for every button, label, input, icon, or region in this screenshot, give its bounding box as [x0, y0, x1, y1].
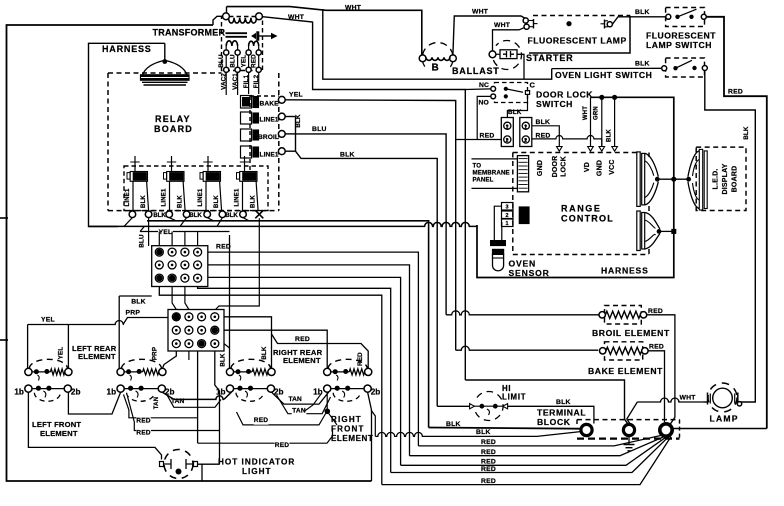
hi limit switch	[476, 391, 504, 420]
wire grid1 row2 to bundle	[208, 265, 410, 456]
transformer terminal left	[223, 13, 230, 20]
ground symbol under terminal 2	[628, 436, 630, 445]
wire grid1 cols to grid2	[172, 287, 176, 310]
svg-text:BROIL ELEMENT: BROIL ELEMENT	[592, 328, 670, 338]
svg-text:L.E.D.: L.E.D.	[713, 168, 720, 189]
svg-text:PRP: PRP	[151, 347, 158, 360]
wire c2 to bake join	[637, 401, 638, 403]
svg-text:RED: RED	[357, 352, 364, 366]
relay K2	[171, 156, 173, 172]
svg-text:WHT: WHT	[345, 5, 362, 12]
starter	[493, 41, 521, 70]
wire hot indicator to bottom line	[201, 464, 203, 481]
wire U1 2b to U2 1b	[68, 392, 120, 414]
harness enclosure box	[477, 97, 674, 277]
wire grid1 row1 to bundle	[208, 252, 419, 446]
wire BLK bottom run	[375, 432, 537, 436]
svg-text:TAN: TAN	[154, 397, 160, 410]
svg-text:YEL: YEL	[159, 229, 173, 236]
wire grid1 col1 down BLK to bundle	[159, 287, 381, 485]
svg-text:PRP: PRP	[126, 309, 141, 316]
svg-text:BLK: BLK	[556, 399, 571, 406]
wire U1 right feed	[67, 325, 69, 369]
surface element right front switch row	[324, 385, 331, 392]
membrane connector	[517, 156, 528, 192]
svg-text:1b: 1b	[107, 388, 117, 397]
svg-text:RED: RED	[536, 132, 551, 139]
oven sensor body	[491, 241, 506, 246]
wire YEL bus	[140, 231, 230, 233]
wire harness lead down to connector	[164, 43, 166, 59]
svg-text:RED: RED	[481, 449, 496, 456]
wire WHT outer left loop	[7, 25, 372, 481]
svg-text:BLK: BLK	[261, 346, 268, 360]
wire WHT transformer primary left lead	[213, 16, 226, 25]
junction dots on enclosure top	[599, 95, 604, 100]
wire grid1 col4 down to bundle	[198, 287, 391, 473]
fluorescent lamp switch	[666, 8, 705, 27]
svg-text:WHT: WHT	[583, 106, 589, 120]
harness box outline	[89, 43, 165, 226]
svg-text:BLU: BLU	[139, 234, 146, 248]
surface element left front switch row	[25, 385, 32, 392]
wire oven light switch feed	[552, 67, 664, 69]
surface element left front top row	[25, 368, 32, 375]
svg-text:LEFT FRONT: LEFT FRONT	[32, 420, 81, 429]
wire BLK main feed to terminal 1	[429, 428, 580, 429]
svg-text:2: 2	[524, 138, 527, 144]
svg-text:RED: RED	[648, 308, 663, 315]
relay board dashed box	[108, 72, 222, 74]
transformer primary winding	[229, 18, 257, 23]
wire WHT lamp feed	[637, 398, 707, 402]
svg-text:TAN: TAN	[289, 396, 302, 403]
junction X terminal	[255, 210, 263, 218]
svg-text:RED: RED	[136, 418, 151, 425]
svg-text:LIGHT: LIGHT	[242, 467, 272, 476]
svg-text:BLU: BLU	[218, 54, 225, 68]
wire RED U3 to U4 low run	[237, 412, 327, 425]
wire right front element drops	[326, 392, 328, 411]
svg-text:LAMP SWITCH: LAMP SWITCH	[646, 40, 712, 50]
svg-text:DOOR LOCK: DOOR LOCK	[536, 90, 593, 100]
svg-text:BLK: BLK	[295, 114, 302, 128]
svg-text:LINE1: LINE1	[260, 117, 279, 124]
svg-text:GND: GND	[596, 160, 603, 176]
transformer core bars	[226, 32, 248, 34]
svg-text:BLK: BLK	[340, 152, 355, 159]
svg-text:RED: RED	[649, 344, 664, 351]
wire RED to U4 right	[272, 334, 369, 369]
relay bank dashed box	[124, 166, 268, 211]
svg-text:DISPLAY: DISPLAY	[722, 163, 729, 194]
connector grid J2	[168, 310, 224, 352]
svg-text:NC: NC	[479, 82, 489, 89]
wire fluorescent to lamp switch BLK	[612, 17, 665, 24]
connector block P1	[501, 118, 513, 147]
svg-text:CONTROL: CONTROL	[561, 214, 614, 224]
svg-text:HARNESS: HARNESS	[601, 266, 649, 276]
svg-text:BAKE ELEMENT: BAKE ELEMENT	[588, 366, 663, 376]
wire terminal 2 diagonals	[465, 380, 628, 425]
grid1 feed verticals	[158, 232, 160, 247]
wire U3 to U4 lower parallel TAN	[277, 395, 331, 414]
wire BLU broil output	[285, 133, 296, 135]
wire U3 left feed	[229, 235, 231, 369]
svg-text:TRANSFORMER: TRANSFORMER	[153, 28, 226, 38]
svg-text:ELEMENT: ELEMENT	[331, 434, 373, 443]
svg-text:FLUORESCENT: FLUORESCENT	[646, 31, 716, 41]
svg-text:BLK: BLK	[508, 109, 522, 116]
wire YEL left element feed	[28, 321, 124, 325]
wire NC to WHT line	[465, 88, 491, 91]
svg-text:VCC: VCC	[609, 159, 616, 174]
svg-text:B: B	[432, 63, 439, 74]
svg-text:HARNESS: HARNESS	[102, 44, 152, 54]
svg-text:3: 3	[506, 205, 509, 211]
svg-text:BALLAST: BALLAST	[452, 66, 500, 76]
wire BLU secondary lead 1	[225, 55, 227, 67]
svg-text:BLK: BLK	[214, 195, 220, 208]
oven lamp	[708, 383, 737, 412]
wire RED run 1	[418, 435, 663, 446]
svg-text:TERMINAL: TERMINAL	[537, 408, 586, 418]
wire bake element feed with crossover	[456, 346, 599, 350]
harness connector bell	[162, 59, 167, 64]
wire LINE1 tie vertical	[295, 117, 297, 152]
wire U2 to U3 lower parallel	[167, 395, 221, 407]
svg-text:MEMBRANE: MEMBRANE	[473, 170, 510, 177]
svg-text:YEL: YEL	[241, 55, 248, 68]
terminal 2	[623, 424, 634, 435]
svg-text:YEL: YEL	[58, 347, 65, 360]
svg-text:BLK: BLK	[131, 299, 146, 306]
svg-text:PANEL: PANEL	[473, 177, 494, 184]
broil element	[605, 306, 642, 325]
svg-text:WHT: WHT	[472, 9, 489, 16]
svg-text:OVEN LIGHT SWITCH: OVEN LIGHT SWITCH	[555, 70, 652, 80]
wire bottom line to right front element	[368, 392, 372, 481]
wire RED switch to right rail	[706, 17, 767, 429]
svg-text:WHT: WHT	[494, 22, 511, 29]
surface element left rear switch row	[117, 385, 124, 392]
surface element right rear top row	[226, 368, 233, 375]
svg-text:RED: RED	[481, 466, 496, 473]
oven sensor connector	[502, 203, 514, 211]
surface element right front top row	[324, 368, 331, 375]
svg-text:BOARD: BOARD	[154, 124, 193, 134]
wire bell B to enclosure edge	[659, 230, 674, 232]
wire BLU secondary lead 2	[237, 55, 239, 67]
svg-text:BLK: BLK	[476, 429, 491, 436]
wires to membrane panel	[472, 158, 518, 160]
svg-text:BLK: BLK	[141, 195, 147, 208]
range control dashed box	[513, 152, 637, 154]
wire U2 right feed PRP	[162, 351, 176, 369]
svg-text:BLK: BLK	[189, 212, 202, 219]
svg-text:HOT INDICATOR: HOT INDICATOR	[218, 458, 295, 467]
svg-text:RED: RED	[728, 88, 743, 95]
svg-text:BLK: BLK	[250, 195, 256, 208]
transformer secondary winding A	[226, 41, 237, 46]
hot indicator light	[164, 450, 193, 479]
wire grid1 row3 to bundle	[208, 277, 401, 465]
svg-text:BLK: BLK	[536, 119, 551, 126]
wire RED block P2 to GND pin	[532, 135, 602, 138]
wire starter to oven light line	[517, 54, 524, 79]
svg-text:SWITCH: SWITCH	[536, 99, 573, 109]
wire grid2 col2 stub down	[188, 351, 190, 360]
svg-text:BROIL: BROIL	[258, 134, 279, 141]
transformer chassis arrow	[251, 33, 256, 39]
svg-text:TO: TO	[473, 163, 482, 170]
wire hi limit to terminal 1 BLK	[508, 406, 594, 423]
wire GND pin	[601, 97, 603, 146]
relay bank terminals row	[129, 211, 136, 218]
wire BLK bus lower to harness box	[89, 222, 478, 226]
wire bake right down to terminal	[648, 351, 664, 422]
wire TAN U2 2b to U3 1b	[162, 392, 174, 399]
svg-text:GND: GND	[537, 160, 544, 176]
pin triangles range control	[557, 147, 563, 152]
wire bell A to display bell	[657, 178, 688, 180]
relay output column dashed box	[249, 96, 251, 170]
wire RED U2 switch feed b	[128, 397, 220, 431]
wire broil element feed with crossovers	[446, 311, 599, 315]
wire branch down to oven light switch line	[323, 9, 552, 79]
transformer terminal right	[256, 13, 263, 20]
label RED b	[136, 429, 151, 437]
svg-text:FRONT: FRONT	[331, 425, 365, 434]
wire VD pin	[590, 97, 592, 146]
relay K3 coil leads	[205, 181, 207, 211]
wire VCC pin	[614, 97, 616, 146]
terminal block dashed box	[577, 419, 680, 421]
wire hot indicator left feed	[28, 392, 161, 459]
junction dot bell A	[671, 177, 676, 182]
svg-text:BLK: BLK	[743, 126, 750, 140]
wire VAC stubs into relay board	[225, 72, 227, 95]
oven light switch	[666, 58, 705, 77]
harness bell connector A	[637, 152, 640, 207]
surface element right rear switch row	[226, 385, 233, 392]
svg-text:RED: RED	[480, 133, 495, 140]
transformer secondary terminals row	[224, 50, 229, 55]
relay K3	[207, 156, 209, 172]
connector grid J1	[152, 246, 208, 287]
svg-text:RED: RED	[136, 429, 151, 436]
svg-text:BLOCK: BLOCK	[537, 417, 571, 427]
svg-text:BLK: BLK	[635, 61, 650, 68]
wire BLK block P2 to door lock pin	[532, 126, 560, 147]
svg-text:1: 1	[506, 124, 509, 130]
wire grid2 col down to hot light area	[197, 351, 199, 443]
connector block P2	[520, 118, 532, 147]
wire BLK oven switch to lamp rail	[705, 71, 756, 403]
svg-text:BLK: BLK	[220, 353, 227, 367]
junction square bell B	[672, 229, 676, 233]
edge mark lower	[0, 339, 8, 341]
wire RED U2 switch feed a	[124, 395, 198, 418]
wire grid2 row2 to U4 left	[224, 330, 327, 368]
wire WHT ballast to fluorescent lamp	[453, 16, 528, 55]
transformer secondary winding B	[249, 41, 259, 46]
relay K4 coil leads	[242, 181, 244, 211]
svg-text:1b: 1b	[313, 388, 323, 397]
svg-text:BLK: BLK	[635, 9, 650, 16]
svg-text:STARTER: STARTER	[526, 53, 573, 63]
svg-text:WHT: WHT	[288, 14, 305, 21]
relay K4	[244, 156, 246, 172]
svg-text:RED: RED	[481, 478, 496, 485]
svg-text:C: C	[530, 81, 536, 90]
label YEL bus	[158, 229, 173, 237]
svg-text:2b: 2b	[371, 388, 381, 397]
wire WHT transformer secondary to door lock NC	[259, 16, 465, 380]
fluorescent lamp box	[529, 16, 630, 54]
svg-text:RED: RED	[481, 439, 496, 446]
svg-text:RED: RED	[251, 54, 258, 68]
svg-text:LINE1: LINE1	[198, 188, 204, 206]
svg-text:ELEMENT: ELEMENT	[283, 356, 321, 365]
svg-text:SENSOR: SENSOR	[509, 268, 550, 278]
label TAN U3 lower	[292, 407, 307, 415]
edge mark upper	[0, 217, 8, 219]
label RED a	[136, 417, 151, 425]
wire C to block BLK	[507, 94, 527, 117]
oven sensor leads	[494, 206, 501, 240]
label BLK grid wire	[131, 298, 146, 306]
svg-text:RANGE: RANGE	[561, 204, 602, 214]
harness bell connector B lower	[637, 211, 640, 251]
svg-text:ELEMENT: ELEMENT	[40, 429, 78, 438]
relay board output component rects	[241, 96, 252, 109]
svg-text:1b: 1b	[14, 388, 24, 397]
svg-text:BAKE: BAKE	[260, 101, 280, 108]
svg-text:VD: VD	[584, 162, 591, 172]
terminal 1	[581, 424, 592, 435]
wire BLK line1 output	[285, 150, 296, 152]
relay K1	[134, 156, 136, 172]
wire RED run 3	[401, 437, 667, 466]
svg-text:RED: RED	[216, 244, 231, 251]
svg-text:TAN: TAN	[171, 398, 184, 405]
svg-text:NO: NO	[479, 100, 489, 107]
svg-text:YEL: YEL	[41, 317, 55, 324]
svg-text:RED: RED	[275, 442, 290, 449]
svg-text:LIMIT: LIMIT	[502, 393, 526, 402]
label RED u3u4	[254, 417, 269, 425]
svg-text:RED: RED	[254, 417, 269, 424]
transformer pin terminals VAC2 VAC1 FIL1 FIL2	[224, 67, 229, 72]
svg-text:2b: 2b	[71, 388, 81, 397]
wire YEL bake output	[285, 100, 456, 350]
svg-text:RELAY: RELAY	[155, 114, 191, 124]
svg-text:DOOR: DOOR	[552, 156, 559, 178]
svg-text:LOCK: LOCK	[561, 156, 568, 177]
svg-text:YEL: YEL	[289, 92, 303, 99]
wire NO to block	[477, 96, 491, 139]
bake element	[605, 342, 643, 360]
svg-text:RED: RED	[481, 459, 496, 466]
surface element left rear top row	[117, 368, 124, 375]
terminal 3	[660, 424, 672, 436]
wire YEL secondary lead 3	[248, 55, 250, 67]
display board bell connector	[688, 151, 699, 209]
svg-text:LINE1: LINE1	[125, 188, 131, 206]
svg-text:FLUORESCENT LAMP: FLUORESCENT LAMP	[528, 36, 627, 46]
wire terminal 3 to right rail	[672, 428, 767, 430]
wire grid2 row1 to U3 right	[224, 317, 272, 369]
wire RED run 2	[410, 437, 665, 456]
wire BLK bus upper to terminal block	[147, 221, 429, 428]
svg-text:WHT: WHT	[680, 394, 697, 401]
wire TAN U3 2b to U4 1b	[272, 392, 329, 404]
wire WHT top feed (transformer to ballast)	[227, 7, 422, 59]
relay K2 coil leads	[169, 181, 171, 211]
wire WHT starter to fluorescent	[493, 27, 527, 51]
wire RED block P1 left	[456, 139, 502, 141]
svg-text:RED: RED	[295, 336, 310, 343]
svg-text:LAMP: LAMP	[710, 414, 739, 424]
wire RED run 5	[382, 437, 671, 485]
svg-text:BLK: BLK	[225, 212, 238, 219]
svg-text:2: 2	[506, 138, 509, 144]
svg-text:ELEMENT: ELEMENT	[78, 352, 116, 361]
LED display board dashed box	[696, 147, 746, 210]
svg-text:1: 1	[524, 124, 527, 130]
relay K1 coil leads	[132, 181, 134, 211]
label RED long	[275, 442, 290, 450]
svg-text:BOARD: BOARD	[732, 166, 739, 193]
wire hot indicator right feed	[198, 463, 220, 465]
wire U2 left feed	[118, 296, 120, 369]
svg-text:BLK: BLK	[446, 421, 461, 428]
svg-text:BLU: BLU	[230, 54, 237, 68]
svg-text:GRN: GRN	[593, 106, 599, 120]
svg-text:BLK: BLK	[153, 212, 166, 219]
ballast	[422, 43, 453, 67]
wire RED hot light long run	[198, 428, 333, 443]
wire RED secondary lead 4	[258, 55, 260, 67]
transformer T1 dashed box	[222, 17, 263, 71]
svg-text:1b: 1b	[216, 388, 226, 397]
svg-text:LINE1: LINE1	[260, 152, 279, 159]
fluorescent lamp electrodes	[523, 18, 528, 23]
svg-text:LINE1: LINE1	[162, 188, 168, 206]
wire terminal diagonals to buses	[124, 218, 132, 227]
wire RED run 4	[391, 437, 669, 473]
svg-text:LINE1: LINE1	[235, 188, 241, 206]
svg-text:1: 1	[506, 221, 509, 227]
svg-text:BLK: BLK	[177, 195, 183, 208]
svg-text:2: 2	[506, 213, 509, 219]
wire hi limit left feed	[437, 405, 469, 407]
svg-text:BLK: BLK	[607, 129, 613, 142]
svg-text:BLU: BLU	[312, 126, 327, 133]
wire broil right down to terminal	[647, 315, 675, 425]
